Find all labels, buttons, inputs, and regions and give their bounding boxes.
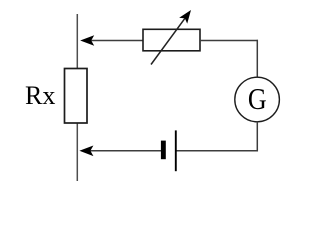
svg-text:G: G bbox=[248, 82, 267, 117]
resistor R (rheostat) box bbox=[143, 29, 200, 51]
wire: top rail left segment bbox=[86, 40, 144, 42]
wire: top rail right segment bbox=[200, 40, 258, 42]
galvanometer G circle bbox=[235, 77, 280, 122]
wire: left vertical slide wire bbox=[76, 14, 78, 181]
battery negative plate (short thick) bbox=[161, 141, 166, 160]
arrow: bottom-left current arrow bbox=[79, 146, 93, 157]
resistor Rx box bbox=[65, 69, 88, 124]
svg-text:Rx: Rx bbox=[25, 81, 55, 110]
rheostat arrowhead bbox=[179, 10, 191, 24]
wire: right vertical lower bbox=[256, 122, 258, 152]
arrow: top-left current arrow bbox=[80, 35, 94, 46]
wire: bottom rail right segment bbox=[176, 150, 258, 152]
battery positive plate (long thin) bbox=[175, 130, 177, 171]
rheostat diagonal shaft bbox=[151, 16, 187, 64]
wire: right vertical upper bbox=[256, 40, 258, 78]
wire: bottom rail left segment bbox=[86, 150, 161, 152]
